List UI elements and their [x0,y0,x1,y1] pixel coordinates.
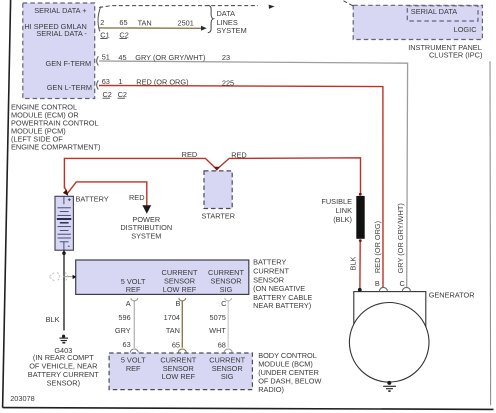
svg-text:GRY (OR GRY/WHT): GRY (OR GRY/WHT) [396,203,405,273]
svg-text:65: 65 [172,340,180,349]
svg-text:LOGIC: LOGIC [454,25,478,34]
svg-text:C1: C1 [100,31,109,40]
svg-text:GENERATOR: GENERATOR [429,290,475,299]
svg-text:51: 51 [102,53,110,62]
svg-text:REF: REF [126,285,141,294]
svg-text:SERIAL DATA +: SERIAL DATA + [34,6,86,15]
svg-text:CURRENT: CURRENT [253,267,289,276]
svg-text:RED: RED [129,193,145,202]
svg-text:BATTERY: BATTERY [76,195,109,204]
svg-text:A: A [126,299,131,308]
svg-text:TAN: TAN [166,326,180,335]
svg-text:C2: C2 [103,90,112,99]
svg-text:SIG: SIG [221,372,234,381]
svg-text:RADIO): RADIO) [258,385,284,394]
svg-text:SIG: SIG [220,285,233,294]
svg-text:SYSTEM: SYSTEM [131,231,161,240]
svg-text:C: C [221,299,227,308]
svg-text:BATTERY: BATTERY [253,257,286,266]
svg-text:1: 1 [118,77,122,86]
svg-text:SERIAL DATA -: SERIAL DATA - [36,29,87,38]
svg-text:23: 23 [222,53,230,62]
svg-text:DATA: DATA [217,9,236,18]
svg-text:C2: C2 [118,90,127,99]
svg-text:1704: 1704 [164,313,180,322]
svg-text:NEAR BATTERY): NEAR BATTERY) [253,301,311,310]
svg-text:TAN: TAN [138,18,152,27]
svg-text:596: 596 [118,313,130,322]
svg-text:CURRENT: CURRENT [162,268,198,277]
svg-text:ENGINE COMPARTMENT): ENGINE COMPARTMENT) [11,142,101,151]
svg-text:C2: C2 [119,31,128,40]
svg-text:LOW REF: LOW REF [162,372,196,381]
svg-text:CLUSTER (IPC): CLUSTER (IPC) [429,51,482,60]
svg-text:B: B [375,279,380,288]
svg-text:(BLK): (BLK) [333,215,352,224]
svg-text:LINK: LINK [336,206,352,215]
svg-text:STARTER: STARTER [201,211,235,220]
svg-text:LOW REF: LOW REF [163,285,197,294]
svg-text:SERIAL DATA: SERIAL DATA [411,7,457,16]
svg-text:RED (OR ORG): RED (OR ORG) [373,221,382,273]
svg-text:B: B [175,299,180,308]
svg-text:CURRENT: CURRENT [208,268,244,277]
svg-text:BLK: BLK [46,315,60,324]
svg-text:68: 68 [218,340,226,349]
svg-text:BLK: BLK [349,256,358,270]
svg-text:203078: 203078 [10,394,35,403]
svg-text:5075: 5075 [210,313,226,322]
svg-text:225: 225 [222,79,234,88]
svg-text:RED (OR ORG): RED (OR ORG) [136,78,188,87]
svg-text:GEN L-TERM: GEN L-TERM [47,83,92,92]
svg-text:FUSIBLE: FUSIBLE [321,197,352,206]
svg-text:(ON NEGATIVE: (ON NEGATIVE [253,284,305,293]
svg-text:GRY (OR GRY/WHT): GRY (OR GRY/WHT) [135,53,205,62]
svg-text:45: 45 [118,53,126,62]
svg-text:63: 63 [123,340,131,349]
svg-text:65: 65 [119,18,127,27]
svg-text:C: C [399,279,405,288]
svg-text:RED: RED [182,150,198,159]
svg-text:SYSTEM: SYSTEM [217,26,247,35]
svg-text:GRY: GRY [115,326,131,335]
svg-text:GEN F-TERM: GEN F-TERM [45,59,91,68]
svg-text:SENSOR): SENSOR) [47,378,80,387]
svg-text:2501: 2501 [178,19,194,28]
svg-text:63: 63 [102,77,110,86]
svg-text:REF: REF [126,364,141,373]
svg-text:RED: RED [231,150,247,159]
svg-text:2: 2 [100,18,104,27]
svg-text:WHT: WHT [209,326,226,335]
